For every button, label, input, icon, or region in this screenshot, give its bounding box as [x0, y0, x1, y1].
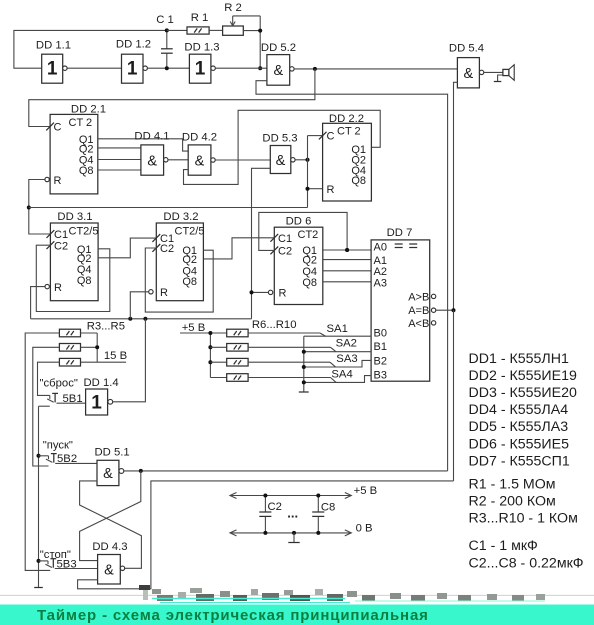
wire DD5.2 out to DD5.4 in — [294, 68, 457, 70]
svg-text:SA2: SA2 — [336, 338, 357, 350]
svg-text:C2: C2 — [54, 240, 68, 252]
wire cap bank 0V rail with arrows — [230, 523, 373, 536]
SECTION: parts list — [469, 351, 584, 572]
svg-text:C2: C2 — [278, 245, 292, 257]
svg-text:&: & — [103, 466, 113, 482]
svg-text:DD1 - К555ЛН1: DD1 - К555ЛН1 — [469, 351, 569, 367]
svg-text:DD 4.3: DD 4.3 — [92, 541, 127, 553]
wire R9 to SA4 — [248, 377, 330, 379]
svg-text:Q2: Q2 — [302, 255, 317, 267]
svg-text:1: 1 — [195, 59, 206, 80]
svg-text:DD2 - К555ИЕ19: DD2 - К555ИЕ19 — [469, 368, 577, 384]
svg-text:DD6 - К555ИЕ5: DD6 - К555ИЕ5 — [469, 436, 570, 452]
svg-text:Q8: Q8 — [351, 175, 366, 187]
wire R5 right and 15V stub — [81, 361, 127, 363]
svg-text:C: C — [327, 131, 335, 143]
capacitor C2 — [259, 494, 282, 535]
NAND DD5.1 — [95, 446, 130, 485]
inverter DD1.1 — [36, 40, 71, 84]
svg-text:C2: C2 — [160, 243, 174, 255]
svg-text:R: R — [327, 184, 335, 196]
svg-text:R: R — [279, 288, 287, 300]
pushbutton SB3 — [39, 559, 98, 569]
svg-text:SA4: SA4 — [331, 368, 352, 380]
svg-text:SA3: SA3 — [336, 353, 357, 365]
wire DD1.1 out to DD1.2 in — [67, 67, 121, 69]
resistor R5 — [59, 358, 80, 366]
svg-text:DD 5.3: DD 5.3 — [262, 132, 297, 144]
svg-text:15 В: 15 В — [104, 350, 127, 362]
svg-text:DD 1.4: DD 1.4 — [84, 377, 119, 389]
svg-text:&: & — [147, 153, 157, 169]
svg-text:C1: C1 — [54, 229, 68, 241]
svg-text:Q8: Q8 — [79, 165, 94, 177]
wire DD4.1 out to DD4.2 — [168, 159, 188, 161]
svg-text:DD5 - К555ЛА3: DD5 - К555ЛА3 — [469, 419, 569, 435]
pushbutton SB1 — [39, 393, 86, 406]
wire R4 right — [81, 346, 98, 348]
svg-text:Q8: Q8 — [182, 276, 197, 288]
wire R3 right to common 15V vertical — [81, 332, 98, 334]
wire DD5.4 out to speaker — [484, 71, 503, 73]
title bar background — [0, 605, 594, 625]
wire SA1 to DD7 B0 — [304, 335, 371, 337]
svg-text:A1: A1 — [374, 255, 387, 267]
wire DD5.3 output vertical to DD2.2 C and R and rail — [307, 136, 309, 208]
svg-text:Q8: Q8 — [77, 275, 92, 287]
svg-text:A3: A3 — [374, 278, 387, 290]
svg-text:SA1: SA1 — [327, 323, 348, 335]
counter DD2.2 — [319, 113, 372, 201]
wire +5V feed to R6 — [180, 332, 227, 334]
svg-text:R: R — [54, 282, 62, 294]
svg-text:R6...R10: R6...R10 — [252, 319, 297, 331]
wire reset rail — [31, 318, 252, 320]
wire cap bank +5V rail with arrows — [230, 485, 377, 499]
svg-text:R3...R10 - 1 КОм: R3...R10 - 1 КОм — [469, 511, 578, 527]
svg-text:&: & — [463, 66, 473, 82]
svg-text:5В1: 5В1 — [63, 393, 83, 405]
svg-text:С1 - 1 мкФ: С1 - 1 мкФ — [469, 538, 538, 554]
resistor R4 — [59, 344, 80, 352]
ground bar at chain bottom — [34, 587, 43, 589]
vertical +5V distribution — [209, 333, 211, 378]
speaker — [494, 65, 514, 82]
svg-text:&: & — [273, 63, 283, 79]
pushbutton SB2 — [39, 454, 98, 464]
wire R5 left to SB1 — [38, 362, 60, 395]
wire R7 to SA2 — [248, 346, 330, 348]
svg-text:1: 1 — [127, 59, 138, 80]
svg-text:CT2/5: CT2/5 — [69, 225, 99, 237]
svg-text:DD 7: DD 7 — [387, 227, 413, 239]
svg-text:R2 - 200 КОм: R2 - 200 КОм — [469, 493, 556, 509]
wire stub to DD2.2 R — [308, 188, 323, 190]
faint separator line — [0, 594, 594, 596]
svg-text:DD 4.2: DD 4.2 — [182, 132, 217, 144]
switch SA1 blade — [320, 333, 326, 336]
svg-text:&: & — [276, 153, 286, 169]
svg-text:"сброс": "сброс" — [40, 378, 78, 390]
inverter DD1.4 — [84, 377, 119, 415]
wire DD3.1 Q1 feedback to C2 — [36, 245, 110, 311]
wire DD6 Q1 to DD7 A0 — [323, 249, 371, 251]
NAND DD4.3 — [92, 541, 127, 584]
wire DD4.3 third input from A=B line — [78, 481, 454, 589]
counter DD3.1 — [45, 211, 98, 301]
wire R3 left to SB3 — [25, 333, 59, 570]
svg-text:DD 3.2: DD 3.2 — [163, 211, 198, 223]
wire DD1.2 out to DD1.3 in — [147, 67, 189, 69]
svg-text:Q8: Q8 — [302, 277, 317, 289]
vertical joining R3 R4 R5 right — [96, 333, 98, 362]
wire DD6 Q2 to DD7 A1 — [323, 259, 371, 261]
capacitor C1 — [156, 14, 174, 70]
svg-text:+5 В: +5 В — [354, 485, 378, 497]
wire DD3.1 R to reset rail — [31, 287, 45, 319]
wire DD2.1 R input from reset rail and down to DD3.1 C1 — [29, 180, 51, 235]
wire A=B output to latch/DD5.4 vertical — [436, 309, 454, 311]
wire DD3.2 Q2 to DD6 C1 — [203, 238, 274, 259]
svg-text:DD 2.1: DD 2.1 — [71, 104, 106, 116]
switch SA3 blade — [330, 362, 336, 367]
svg-text:R: R — [160, 287, 168, 299]
svg-text:A=B: A=B — [408, 305, 429, 317]
counter DD3.2 — [149, 211, 205, 301]
wire DD5.1 out long to DD5.2 gate vertical — [124, 470, 448, 472]
svg-text:DD 4.1: DD 4.1 — [134, 131, 169, 143]
NAND DD5.3 — [262, 132, 297, 173]
svg-text:"пуск": "пуск" — [43, 439, 73, 451]
wire DD1.4 out up to reset rail — [113, 319, 146, 402]
wire button common chain down to ground — [38, 406, 40, 587]
svg-text:CT 2: CT 2 — [337, 126, 361, 138]
node on DD7 A0 input wire — [345, 248, 349, 252]
svg-text:DD 5.2: DD 5.2 — [261, 42, 296, 54]
wire DD6 R from reset vertical — [252, 291, 269, 293]
wire DD6 Q8 to DD7 A3 — [323, 281, 371, 283]
wire oscillator output down and left to DD2.1 C input — [29, 69, 315, 127]
NAND DD5.4 — [449, 43, 484, 88]
svg-text:1: 1 — [91, 392, 102, 413]
svg-text:DD 1.2: DD 1.2 — [116, 39, 151, 51]
svg-text:R 1: R 1 — [191, 12, 209, 24]
svg-text:+5 В: +5 В — [182, 322, 206, 334]
wire DD3.2 Q1 feedback to C2 — [145, 248, 213, 312]
wire SA3 to DD7 B2 — [304, 360, 371, 367]
wire cross couple DD5.1 out to DD4.3 input — [80, 471, 141, 561]
node on DD2.1 R vertical at rail — [27, 206, 31, 210]
svg-text:С2...С8 - 0.22мкФ: С2...С8 - 0.22мкФ — [469, 555, 584, 571]
svg-text:R1 - 1.5 МОм: R1 - 1.5 МОм — [469, 476, 556, 492]
svg-text:&: & — [195, 153, 205, 169]
resistor R9 — [210, 374, 248, 382]
switch SA4 blade — [331, 378, 337, 383]
wire DD2.1 Q4 to DD4.1 — [98, 159, 141, 161]
wire DD5.3 second input from reset rail — [252, 168, 271, 318]
svg-text:...: ... — [287, 506, 298, 521]
svg-text:A>B: A>B — [408, 291, 429, 303]
svg-text:DD 3.1: DD 3.1 — [57, 211, 92, 223]
svg-text:A<B: A<B — [408, 318, 429, 330]
svg-text:CT2/5: CT2/5 — [175, 225, 205, 237]
svg-text:C2: C2 — [268, 501, 282, 513]
resistor R7 — [210, 344, 248, 352]
svg-text:CT 2: CT 2 — [69, 117, 93, 129]
resistor R3 — [59, 329, 80, 337]
node at DD5.2 output — [313, 67, 317, 71]
svg-text:A0: A0 — [374, 241, 387, 253]
wire DD5.4 second input from A=B vertical — [454, 82, 458, 310]
svg-text:DD 1.3: DD 1.3 — [184, 42, 219, 54]
svg-text:DD7 - К555СП1: DD7 - К555СП1 — [469, 453, 570, 469]
wire R6 to SA1 — [248, 332, 320, 334]
resistor R1 — [167, 12, 223, 34]
wire stub to DD2.2 C — [308, 135, 323, 137]
NAND DD4.1 — [134, 131, 169, 176]
potentiometer R2 — [223, 2, 263, 70]
svg-text:5В2: 5В2 — [57, 453, 77, 465]
svg-text:0 В: 0 В — [356, 523, 373, 535]
svg-text:CT2: CT2 — [298, 229, 319, 241]
NAND DD5.2 — [261, 42, 296, 85]
capacitor C8 — [312, 494, 335, 535]
svg-text:DD4 - К555ЛА4: DD4 - К555ЛА4 — [469, 402, 569, 418]
wire DD5.3 out to node — [295, 159, 308, 161]
svg-text:A2: A2 — [374, 266, 387, 278]
svg-text:C: C — [54, 122, 62, 134]
svg-text:Q2: Q2 — [79, 143, 94, 155]
svg-text:DD 5.1: DD 5.1 — [95, 446, 130, 458]
svg-text:1: 1 — [47, 59, 58, 80]
wire DD4.2 third input from DD2.2 Q1 feedback — [184, 110, 381, 184]
wire DD6 Q1 feedback to C2 — [259, 212, 347, 250]
inverter DD1.2 — [116, 39, 151, 84]
vertical ground chain of switches — [303, 336, 305, 392]
svg-text:5В3: 5В3 — [57, 558, 77, 570]
wire DD3.2 R to reset rail — [130, 292, 148, 319]
wire cross couple DD4.3 out to DD5.1 input — [80, 481, 142, 568]
switch SA2 blade — [331, 347, 337, 352]
svg-text:Таймер - схема электрическая п: Таймер - схема электрическая принципиаль… — [37, 607, 429, 624]
wire A=B vertical down to DD4.3 input line — [453, 310, 455, 481]
resistor R8 — [210, 358, 248, 366]
svg-text:DD3 - К555ИЕ20: DD3 - К555ИЕ20 — [469, 385, 577, 401]
svg-text:B1: B1 — [374, 341, 387, 353]
svg-text:C 1: C 1 — [156, 14, 174, 26]
wire DD5.2 gating input from DD5.1 output — [256, 81, 448, 471]
svg-text:B3: B3 — [374, 370, 387, 382]
svg-text:R: R — [54, 175, 62, 187]
NAND DD4.2 — [182, 132, 217, 176]
wire feedback loop from C1 node to DD1.1 input — [14, 30, 167, 68]
svg-text:DD 1.1: DD 1.1 — [36, 40, 71, 52]
svg-text:DD 5.4: DD 5.4 — [449, 43, 484, 55]
comparator DD7 — [371, 227, 436, 382]
wire DD2.1 Q2 to DD4.1 — [98, 147, 141, 149]
wire DD2.1 Q8 to DD4.1 — [98, 169, 141, 171]
glitch noise band above title bar — [139, 585, 545, 603]
svg-text:C1: C1 — [278, 233, 292, 245]
wire SA2 to DD7 B1 — [304, 351, 371, 353]
svg-text:B2: B2 — [374, 355, 387, 367]
inverter DD1.3 — [184, 42, 219, 84]
wire rail from DD5.3 output to DD2.1 R — [29, 207, 308, 209]
wire DD3.1 Q2 to DD3.2 C1 — [98, 238, 156, 258]
ground bar below switches — [299, 391, 309, 393]
svg-text:&: & — [104, 563, 114, 579]
svg-text:B0: B0 — [374, 327, 387, 339]
svg-text:R3...R5: R3...R5 — [87, 321, 125, 333]
wire DD1.3 out to DD5.2 in — [215, 67, 267, 69]
ground stub on 0V rail — [288, 531, 299, 543]
counter DD2.1 — [45, 104, 106, 194]
wire DD6 Q4 to DD7 A2 — [323, 270, 371, 272]
counter DD6 — [268, 216, 322, 305]
wire DD2.1 Q1 to DD4.2 input 1 — [98, 139, 188, 151]
svg-text:R 2: R 2 — [224, 2, 242, 14]
wire R8 to SA3 — [248, 361, 330, 363]
wire SA4 to DD7 B3 — [304, 376, 371, 383]
wire R4 left to SB2 — [33, 347, 60, 466]
svg-text:DD 6: DD 6 — [286, 216, 312, 228]
resistor R6 — [227, 329, 248, 337]
wire DD4.2 out to DD5.3 — [215, 159, 270, 161]
